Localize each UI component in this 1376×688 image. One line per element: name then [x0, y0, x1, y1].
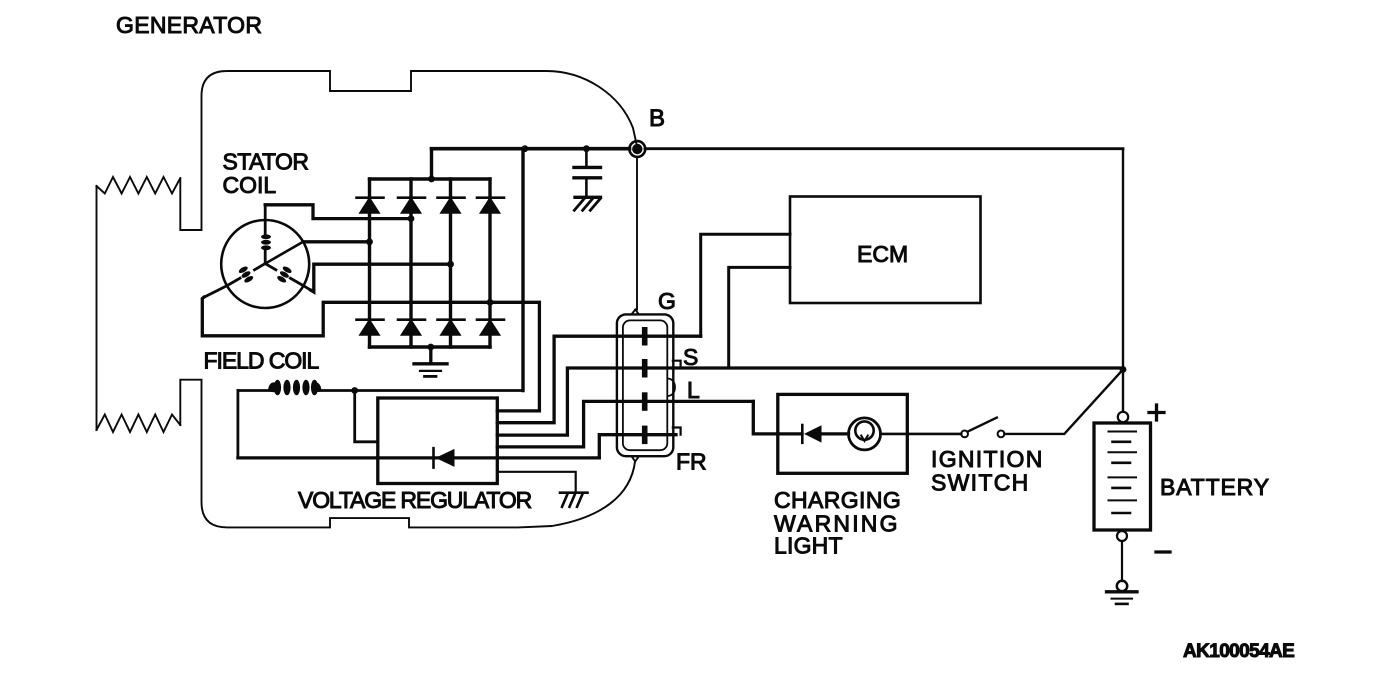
stator neutral spoke	[265, 242, 303, 264]
svg-text:B: B	[649, 105, 665, 132]
pin FR	[642, 426, 648, 445]
diode D4	[477, 198, 504, 213]
diode D7	[438, 320, 465, 335]
rectifier column 2	[409, 179, 412, 347]
wire rectifier output riser to B bus	[430, 149, 433, 179]
node phase N junction	[366, 238, 373, 245]
inductor field coil	[268, 380, 322, 396]
rectifier column 4	[488, 179, 491, 347]
capacitor C1	[574, 149, 601, 197]
wire regulator L to connector	[497, 401, 753, 447]
wire B bus to battery	[645, 147, 1123, 150]
pin L	[642, 392, 648, 411]
diode D5	[357, 320, 384, 335]
diode D8	[477, 320, 504, 335]
op-amp: voltage regulator box U1	[378, 398, 498, 484]
connector shell inner	[623, 320, 667, 450]
svg-text:FR: FR	[676, 449, 707, 475]
stator winding LL (lower-left branch)	[204, 264, 265, 298]
diode D9 regulator	[434, 448, 455, 467]
wire field coil top	[238, 389, 523, 392]
node phase A junction	[408, 215, 415, 222]
wire field tap to regulator	[355, 391, 378, 442]
ignition switch blade	[968, 418, 997, 432]
node junction capacitor tap	[583, 145, 590, 152]
ground capacitor body ground	[574, 197, 600, 210]
rectifier column 1	[368, 179, 371, 347]
wire regulator ground lead	[497, 472, 575, 491]
node S junction	[1120, 366, 1127, 373]
ground regulator body ground	[560, 493, 588, 507]
svg-text:AK100054AE: AK100054AE	[1183, 641, 1294, 662]
wire field coil left side	[236, 391, 239, 458]
upper zigzag edge	[97, 177, 181, 194]
rectifier column 3	[449, 179, 452, 347]
connector S pin tab	[673, 361, 681, 368]
wire lamp to ignition switch	[881, 433, 962, 436]
node phase D column 4 junction	[487, 299, 494, 306]
ground rectifier earth	[414, 347, 447, 376]
wire ECM to S	[729, 267, 790, 368]
diode D2	[398, 198, 425, 213]
diode D10 warning light	[802, 425, 821, 443]
node field coil junction	[351, 387, 358, 394]
generator enclosure outline	[180, 71, 637, 527]
svg-text:CHARGING: CHARGING	[774, 487, 901, 513]
label minus	[1156, 550, 1170, 553]
wire diode to lamp	[822, 432, 849, 435]
battery positive terminal	[1118, 412, 1128, 422]
enclosure jog to upper zigzag	[180, 179, 201, 230]
pin G	[642, 327, 648, 346]
charging warning light box	[778, 394, 908, 473]
battery negative terminal	[1117, 531, 1127, 541]
rectifier bottom bus	[370, 345, 491, 348]
svg-text:GENERATOR: GENERATOR	[116, 12, 262, 38]
battery box	[1094, 423, 1151, 530]
rectifier top bus	[370, 177, 491, 180]
diode D6	[398, 320, 425, 335]
svg-text:SWITCH: SWITCH	[931, 470, 1030, 496]
node rectifier bottom bus junction	[427, 344, 434, 351]
svg-text:G: G	[658, 288, 676, 314]
wire L to warning light	[753, 401, 802, 434]
ground battery earth	[1107, 581, 1138, 604]
svg-text:IGNITION: IGNITION	[931, 446, 1044, 472]
wire regulator FR to connector	[599, 435, 676, 458]
svg-text:COIL: COIL	[223, 172, 277, 198]
svg-text:LIGHT: LIGHT	[774, 533, 843, 559]
node rectifier top bus junction	[428, 176, 435, 183]
wire phase D (lower-left winding to diode column 4 and regulator P)	[202, 297, 539, 411]
lower zigzag edge	[97, 415, 181, 433]
wire regulator S to connector	[497, 368, 1123, 435]
ECM box	[790, 197, 981, 304]
lamp bulb	[849, 418, 881, 450]
svg-text:L: L	[687, 377, 700, 403]
wire battery sense vertical	[1122, 149, 1124, 412]
left jagged vertical edge	[96, 186, 98, 430]
svg-text:S: S	[683, 344, 698, 370]
connector shell outer	[617, 314, 673, 456]
wire phase C (lower-right winding to diode column 3)	[311, 264, 451, 292]
wire ECM to G	[701, 234, 790, 336]
battery cells	[1109, 432, 1137, 514]
node junction at x523	[521, 145, 528, 152]
ignition switch contact 1	[961, 431, 968, 438]
svg-text:BATTERY: BATTERY	[1160, 474, 1270, 500]
diode D3	[438, 198, 465, 213]
diode D1	[357, 198, 384, 213]
connector FR pin tab	[673, 428, 681, 435]
ignition switch contact 2	[998, 431, 1005, 438]
wire phase A (top winding to diode column 2)	[265, 205, 411, 219]
wire field supply from B bus down	[521, 149, 524, 391]
stator winding LR (lower-right branch)	[265, 264, 311, 291]
connector top tab	[632, 310, 639, 315]
wire battery to ground	[1121, 542, 1123, 582]
wire phase N (neutral spoke to diode column 1)	[303, 240, 369, 243]
wire switch to battery junction	[1004, 370, 1123, 434]
connector key bump	[668, 379, 676, 397]
svg-text:ECM: ECM	[857, 241, 908, 267]
stator winding E (upper branch)	[261, 205, 271, 264]
connector bottom tab	[632, 457, 639, 462]
label plus	[1149, 405, 1164, 420]
pin S	[642, 359, 648, 378]
wire B bus (generator output)	[432, 147, 630, 151]
wire regulator G to connector	[497, 336, 700, 423]
terminal B node	[629, 141, 645, 157]
svg-text:FIELD COIL: FIELD COIL	[204, 348, 320, 374]
node phase C junction	[447, 261, 454, 268]
svg-text:STATOR: STATOR	[223, 149, 309, 175]
wire field coil bottom / regulator diode rail	[238, 456, 599, 459]
svg-text:VOLTAGE REGULATOR: VOLTAGE REGULATOR	[298, 487, 532, 513]
stator coil circle	[221, 220, 309, 308]
